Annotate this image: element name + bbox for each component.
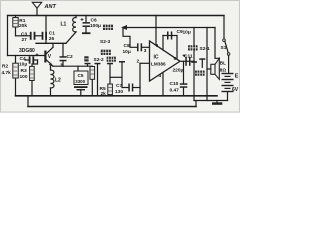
svg-text:S2-3: S2-3 bbox=[100, 39, 110, 45]
svg-text:27: 27 bbox=[22, 37, 28, 43]
svg-text:10μ: 10μ bbox=[123, 49, 131, 55]
svg-text:S2-1: S2-1 bbox=[200, 46, 210, 52]
svg-text:IC: IC bbox=[154, 55, 159, 61]
svg-text:4: 4 bbox=[159, 73, 162, 79]
svg-text:R2: R2 bbox=[2, 64, 8, 70]
svg-text:6: 6 bbox=[156, 43, 159, 49]
svg-text:C6: C6 bbox=[91, 18, 97, 24]
svg-text:8Ω: 8Ω bbox=[220, 68, 227, 73]
svg-text:3300: 3300 bbox=[75, 79, 85, 84]
svg-text:10μ: 10μ bbox=[19, 62, 27, 68]
svg-text:4.7k: 4.7k bbox=[2, 70, 12, 76]
svg-text:ANT: ANT bbox=[44, 4, 57, 10]
svg-text:L1: L1 bbox=[61, 22, 67, 28]
svg-text:C4: C4 bbox=[20, 56, 26, 62]
svg-text:5: 5 bbox=[174, 56, 177, 62]
svg-text:100: 100 bbox=[20, 74, 28, 80]
svg-text:26: 26 bbox=[49, 36, 55, 42]
svg-text:C5: C5 bbox=[78, 73, 84, 78]
svg-text:L2: L2 bbox=[55, 78, 61, 84]
svg-text:C8: C8 bbox=[124, 43, 130, 49]
svg-text:BL: BL bbox=[220, 61, 226, 66]
svg-text:130: 130 bbox=[115, 89, 123, 95]
svg-text:LM386: LM386 bbox=[151, 62, 166, 67]
svg-text:C1: C1 bbox=[49, 30, 55, 36]
svg-text:E: E bbox=[235, 74, 239, 80]
svg-text:20k: 20k bbox=[19, 23, 27, 29]
svg-text:10μ: 10μ bbox=[183, 29, 191, 35]
svg-text:2k: 2k bbox=[101, 91, 107, 97]
svg-text:S1: S1 bbox=[221, 45, 227, 51]
svg-text:0.47: 0.47 bbox=[170, 87, 180, 93]
svg-text:S2-2: S2-2 bbox=[94, 57, 104, 63]
svg-text:220μ: 220μ bbox=[173, 67, 184, 73]
svg-text:3DG80: 3DG80 bbox=[19, 48, 35, 54]
svg-text:R3: R3 bbox=[21, 68, 27, 74]
svg-text:6V: 6V bbox=[232, 87, 239, 93]
svg-text:C10: C10 bbox=[170, 81, 179, 87]
svg-text:3: 3 bbox=[144, 48, 147, 54]
svg-text:2: 2 bbox=[137, 59, 140, 65]
svg-text:C11: C11 bbox=[184, 53, 193, 59]
svg-text:C7: C7 bbox=[116, 83, 122, 89]
svg-text:100μ: 100μ bbox=[90, 23, 101, 29]
svg-text:3: 3 bbox=[60, 62, 63, 68]
svg-text:C3: C3 bbox=[21, 32, 27, 38]
svg-text:C2: C2 bbox=[67, 54, 73, 60]
